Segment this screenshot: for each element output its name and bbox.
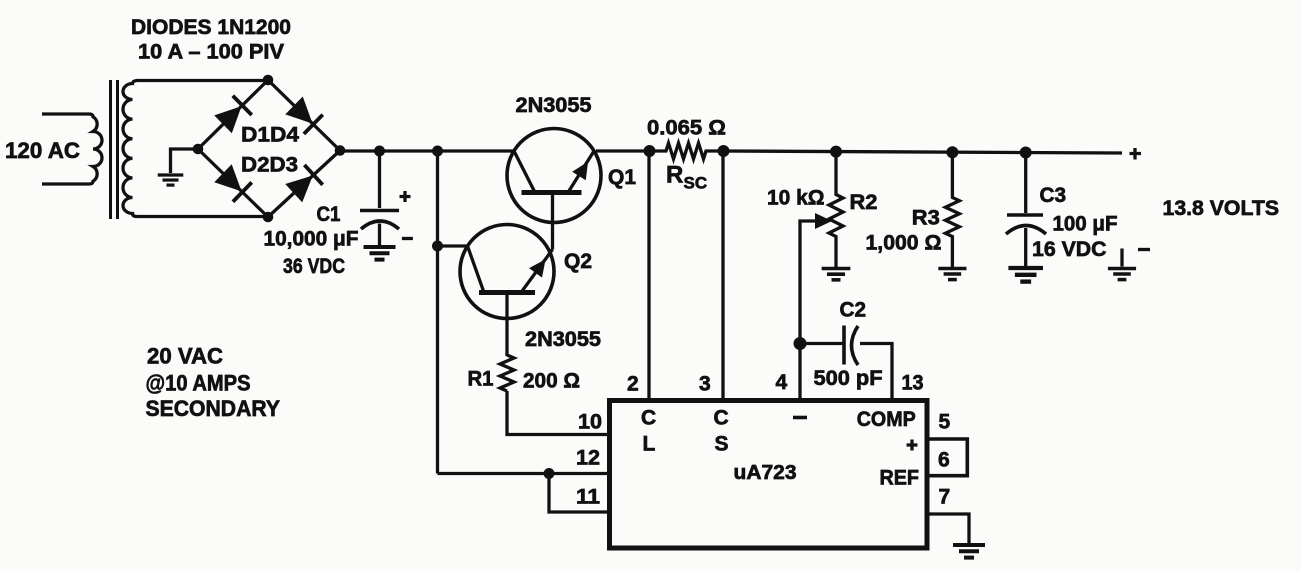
node dot RSC right [718,145,730,157]
transformer T1 primary lead top [42,112,89,115]
IC label plus (pin5) [907,440,918,451]
svg-text:2: 2 [627,373,639,396]
C1 minus sign [402,237,413,240]
wire main rail left section [340,149,513,152]
transformer T1 primary lead bottom [42,182,89,185]
Q2 collector line [468,246,485,293]
svg-text:13.8 VOLTS: 13.8 VOLTS [1163,197,1280,220]
C1 plus sign [400,191,411,202]
node dot bridge left [193,144,204,155]
svg-text:16 VDC: 16 VDC [1032,238,1107,261]
wire rail Q1 emitter to RSC [596,149,650,152]
svg-text:Q1: Q1 [608,166,636,189]
wire pin 2 [647,151,650,400]
svg-text:SC: SC [684,174,708,193]
svg-text:Q2: Q2 [564,250,592,273]
capacitor C3 [1007,213,1043,217]
svg-text:120 AC: 120 AC [5,138,80,163]
capacitor C2 [842,326,846,365]
Q1 collector line [514,151,535,193]
node dot R2 top [830,146,842,158]
svg-text:100 μF: 100 μF [1053,213,1118,236]
svg-text:0.065 Ω: 0.065 Ω [647,117,726,140]
ground at C1 [364,247,396,260]
potentiometer R2 [829,152,843,268]
svg-text:D2D3: D2D3 [241,154,298,177]
Q2 base lead [505,293,508,357]
svg-text:10: 10 [578,411,602,434]
bridge arm bottom-left [198,149,268,217]
ground at bridge [158,175,184,185]
svg-text:10 kΩ: 10 kΩ [767,187,825,210]
svg-text:S: S [715,433,729,456]
svg-text:C1: C1 [317,203,341,226]
svg-text:C2: C2 [840,299,867,322]
output plus sign [1130,148,1142,160]
wire main rail right section [723,151,1122,153]
transistor Q2 circle [460,225,554,319]
svg-text:L: L [643,433,656,456]
output minus sign [1138,248,1150,251]
node dot pin11 junction [544,468,555,479]
svg-text:6: 6 [938,449,950,472]
wire ground stub at bridge left [171,149,199,173]
bridge arm bottom-right [268,151,340,218]
transformer T1 primary winding [89,114,102,184]
svg-text:11: 11 [576,486,600,509]
Q1 base bar [522,190,582,195]
ground at pin 7 [953,545,985,558]
svg-text:C: C [714,407,729,430]
node dot bridge bottom [263,212,274,223]
R1 lead and pin10 wire [507,391,607,435]
wire C1 lead [378,151,381,208]
node dot bridge right [335,145,346,156]
Q1 emitter line [568,151,594,193]
bridge arm top-left [198,80,268,149]
node dot RSC left [644,145,656,157]
ground at R3 [938,269,966,280]
svg-text:R1: R1 [468,368,494,391]
wire vertical branch to pin 12 [436,151,439,474]
wire pin 12 [438,472,608,475]
svg-text:500 pF: 500 pF [814,367,883,390]
svg-text:R3: R3 [912,207,940,230]
wire Q2 collector [438,244,468,247]
node dot C1 junction [374,146,385,157]
transistor Q1 circle [507,129,601,223]
Q2 base bar [479,290,535,295]
diode D1 [214,96,252,134]
svg-text:7: 7 [939,486,951,509]
node dot R3 top [946,146,958,158]
ground at output minus [1108,269,1136,280]
svg-text:R: R [666,162,683,189]
svg-text:2N3055: 2N3055 [525,328,601,351]
wire C2 junction vertical (pin 4) [794,337,807,350]
wire C3 lead [1024,153,1027,214]
op-amp U1 uA723 IC box [610,401,928,549]
ground at R2 [822,269,851,280]
svg-text:5: 5 [939,411,951,434]
node dot bridge top [263,75,274,86]
svg-text:13: 13 [902,372,924,395]
Q1 emitter arrow [572,157,595,180]
node dot Q2 collector branch [432,241,443,252]
IC label minus (pin4) [793,416,807,420]
transformer T1 secondary winding and leads [123,81,268,217]
resistor R1 [500,355,514,391]
R2 wiper wire [800,221,818,400]
Q1 base lead [551,193,554,250]
svg-text:C3: C3 [1040,184,1067,207]
svg-text:4: 4 [776,371,788,394]
transformer T1 core [109,80,112,219]
bridge arm top-right [268,80,340,151]
svg-text:uA723: uA723 [734,462,797,484]
wire C2 left [800,342,844,345]
diode D4 [285,96,323,134]
svg-text:@10 AMPS: @10 AMPS [146,371,251,396]
svg-text:REF: REF [880,467,920,490]
diode D3 [285,165,323,203]
diode D2 [214,164,252,202]
svg-text:R2: R2 [850,191,878,214]
svg-text:DIODES 1N1200: DIODES 1N1200 [131,16,291,39]
node dot vertical branch junction [432,146,443,157]
svg-text:C: C [641,407,656,430]
wire pin 11 [549,474,607,513]
wire C2 right to pin 13 [860,344,892,401]
svg-text:2N3055: 2N3055 [516,94,592,117]
svg-text:12: 12 [576,447,600,470]
Q2 emitter arrow [529,254,552,277]
svg-text:3: 3 [699,373,711,396]
wire pin 7 to ground [928,514,969,543]
svg-text:10,000 μF: 10,000 μF [264,228,359,251]
wire pin5-pin6 external bracket [928,439,967,476]
resistor RSC [649,143,723,159]
svg-text:D1D4: D1D4 [241,124,299,147]
svg-text:COMP: COMP [857,408,916,431]
node dot C3 top [1020,147,1032,159]
svg-text:36 VDC: 36 VDC [283,255,345,278]
R2 wiper arrow [815,213,832,229]
svg-text:SECONDARY: SECONDARY [146,396,281,421]
Q2 emitter line [521,250,553,293]
svg-text:20 VAC: 20 VAC [147,344,223,369]
resistor R3 [945,152,959,267]
svg-text:10 A – 100 PIV: 10 A – 100 PIV [138,41,284,64]
output minus terminal wire [1120,249,1123,267]
svg-text:200 Ω: 200 Ω [523,370,580,393]
svg-text:1,000 Ω: 1,000 Ω [866,232,942,255]
ground at C3 [1008,268,1043,282]
wire pin 3 [721,151,724,400]
capacitor C1 [360,209,399,213]
